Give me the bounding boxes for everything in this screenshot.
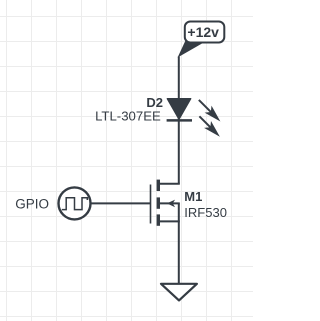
power +12v callout tail [178, 41, 202, 58]
MOSFET M1 body lead with arrow [159, 202, 180, 204]
wire source: MOSFET to ground [178, 203, 180, 284]
wire gate: GPIO to gate [92, 202, 151, 204]
MOSFET M1 channel bar middle [157, 197, 160, 208]
MOSFET M1 body arrowhead [167, 200, 175, 208]
source GPIO square wave [62, 198, 88, 210]
LED D2 triangle [167, 99, 190, 120]
source GPIO circle [59, 187, 91, 219]
MOSFET M1 channel bar bottom [157, 214, 160, 225]
ground [161, 284, 197, 301]
svg-text:D2: D2 [146, 95, 163, 110]
MOSFET M1 channel bar top [157, 180, 160, 191]
svg-text:GPIO: GPIO [15, 197, 49, 212]
LED D2 cathode bar [167, 119, 192, 122]
svg-text:M1: M1 [184, 189, 202, 204]
MOSFET M1 source lead [159, 220, 180, 222]
svg-text:LTL-307EE: LTL-307EE [95, 109, 161, 124]
LED emission arrow 2 [196, 113, 223, 140]
LED emission arrow 1 [195, 96, 223, 124]
MOSFET M1 gate bar [150, 185, 152, 224]
svg-text:IRF530: IRF530 [184, 205, 227, 220]
svg-text:+12v: +12v [187, 24, 219, 40]
power +12v callout bubble [185, 22, 225, 43]
MOSFET M1 drain lead [159, 183, 180, 185]
wire drain: +12v to MOSFET drain [178, 57, 180, 184]
